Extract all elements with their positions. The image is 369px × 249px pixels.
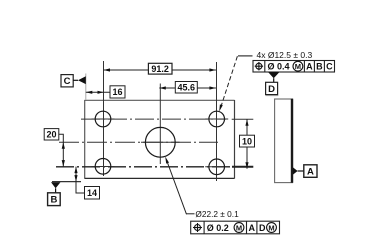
extension line right upper — [232, 118, 254, 120]
dimension 91.2 — [104, 63, 216, 74]
dimension 10 — [240, 119, 255, 169]
hole upper left — [95, 111, 111, 127]
svg-text:M: M — [295, 62, 301, 71]
datum A — [293, 165, 317, 178]
svg-text:B: B — [50, 195, 57, 206]
centerline vertical left holes — [103, 61, 105, 176]
hole lower left — [95, 159, 111, 175]
position symbol — [195, 225, 201, 231]
dimension 20 — [44, 129, 65, 167]
dimension 45.6 — [159, 82, 216, 94]
centerline vertical right holes — [216, 62, 218, 181]
side view — [275, 99, 293, 183]
leader 4x holes — [219, 56, 252, 112]
extension line bottom left — [52, 181, 81, 183]
modifier M circle — [234, 223, 244, 233]
svg-text:Ø 0.4: Ø 0.4 — [268, 62, 290, 72]
hole center — [145, 127, 175, 157]
svg-text:45.6: 45.6 — [178, 83, 196, 93]
svg-text:C: C — [326, 62, 333, 72]
datum D — [266, 72, 280, 96]
centerline lower holes — [56, 166, 232, 168]
svg-text:91.2: 91.2 — [151, 64, 169, 74]
svg-text:C: C — [64, 76, 71, 87]
position symbol — [256, 63, 262, 69]
svg-text:A: A — [307, 167, 314, 178]
svg-text:A: A — [306, 62, 313, 72]
svg-text:Ø 0.2: Ø 0.2 — [207, 223, 229, 233]
extension line gray left edge — [85, 74, 87, 100]
svg-text:10: 10 — [242, 136, 252, 146]
svg-text:Ø22.2 ± 0.1: Ø22.2 ± 0.1 — [195, 209, 239, 219]
feature control frame FCF2 — [191, 221, 280, 234]
feature control frame FCF1 — [253, 61, 335, 73]
plate front view — [85, 99, 235, 101]
centerline middle — [59, 141, 218, 143]
svg-text:16: 16 — [112, 87, 122, 97]
svg-text:M: M — [268, 223, 274, 232]
centerline vertical center hole — [159, 84, 161, 165]
svg-text:D: D — [268, 84, 275, 95]
svg-text:D: D — [259, 223, 266, 233]
hole upper right — [209, 111, 225, 127]
hole crosshairs — [92, 119, 229, 167]
dimension 16 — [86, 86, 125, 98]
svg-text:M: M — [236, 223, 242, 232]
datum B — [48, 182, 61, 206]
dimension 14 — [74, 167, 99, 199]
svg-text:14: 14 — [87, 188, 97, 198]
svg-text:20: 20 — [46, 130, 56, 140]
modifier M circle 2 — [267, 223, 277, 233]
svg-text:4x Ø12.5 ± 0.3: 4x Ø12.5 ± 0.3 — [257, 50, 313, 60]
hole lower right — [209, 159, 225, 175]
datum C — [61, 75, 86, 88]
svg-text:A: A — [248, 223, 255, 233]
modifier M circle — [293, 61, 303, 71]
svg-text:B: B — [316, 62, 323, 72]
centerline upper holes — [81, 118, 226, 120]
leader center hole — [165, 157, 194, 215]
